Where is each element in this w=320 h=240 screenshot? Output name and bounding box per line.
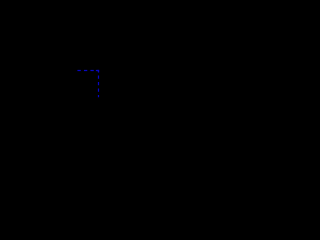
wire (dashed blue wire preview: horizontal segment then vertical segment meeting at corner)	[77, 71, 98, 98]
node A (corner joint dash of the wire)	[96, 71, 99, 73]
